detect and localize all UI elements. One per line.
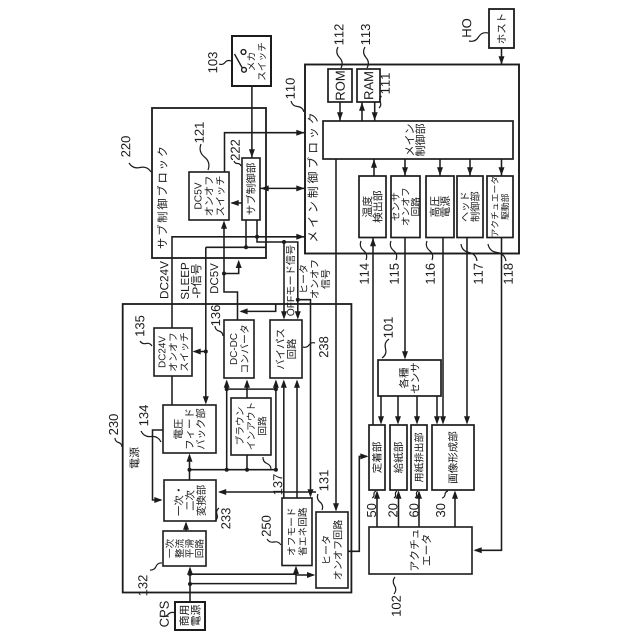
wire: temp detect up into control (373, 159, 375, 176)
label 238 (319, 337, 328, 357)
wire: tap from power boundary into DC5V line (241, 304, 276, 311)
box: DC24V on/off switch 135 (154, 328, 192, 376)
text: power supply title (129, 447, 139, 468)
box: sensor on/off circuit 115 (391, 176, 420, 238)
text: sensor on/off circuit (392, 189, 420, 226)
text: host (497, 14, 506, 43)
text: sub control unit (246, 163, 256, 214)
wire: AC branch to heater circuit (190, 568, 296, 584)
text: head control (461, 192, 480, 222)
wire: actuator drive to actuator (475, 238, 502, 551)
label 60 (409, 504, 418, 517)
block: power supply 230 (123, 304, 352, 593)
text: paper eject (414, 433, 423, 482)
wire: fuser to temp detector (372, 238, 374, 426)
text: image forming (448, 432, 458, 483)
wire: AC input (189, 569, 191, 603)
wire: feedback loop to converter (153, 430, 164, 500)
label 112 (334, 24, 343, 44)
label 117 (474, 264, 483, 284)
box: temperature detector 114 (359, 176, 386, 238)
label 102 (392, 596, 401, 616)
wire: AC branch to energy save (190, 573, 296, 575)
label 114 (360, 263, 369, 283)
symbol: switch contacts (241, 50, 246, 55)
text: HV power supply (430, 196, 450, 217)
box: actuator drive 118 (487, 176, 513, 238)
wire: sub control to main block (bidirectional) (260, 187, 305, 189)
text: fuser (372, 442, 382, 473)
label 233 (221, 508, 230, 528)
wire: ROM to main control unit (339, 102, 341, 121)
wire: SLEEP-P signal (245, 220, 247, 247)
leader squiggles (219, 61, 231, 65)
label 113 (361, 24, 370, 44)
label 30 (436, 504, 445, 517)
wire: DC5V branch to sub block (224, 262, 239, 274)
wire: off-mode branch to bypass (283, 242, 285, 318)
wire: DC5V switch output to main block (225, 133, 306, 172)
label 137 (273, 474, 282, 494)
label HO (462, 19, 471, 37)
wire: mech switch to sub control (251, 86, 253, 158)
label 250 (262, 516, 271, 537)
text: heater on/off circuit (322, 520, 343, 579)
wire: HV supply to image forming (442, 238, 444, 423)
label 132 (138, 575, 147, 595)
text: temperature detector (362, 191, 382, 223)
box: head control 117 (457, 176, 483, 238)
box: DC-DC converter 136 (224, 320, 254, 378)
wire: heater circuit to converter control (220, 491, 317, 493)
box: paper eject unit 60 (411, 425, 427, 490)
wire: heater on/off signal from main control (335, 159, 337, 510)
text: sub control block title (157, 147, 168, 248)
wire: DC-DC to brownout (246, 382, 248, 399)
wires: actuator to units (376, 493, 378, 528)
box: image forming unit 30 (432, 425, 474, 490)
text: actuator (410, 530, 431, 570)
box: mechanical switch 103 (232, 36, 271, 86)
label 135 (135, 316, 144, 336)
text: off-mode energy save (287, 508, 307, 556)
text: commercial power (179, 605, 200, 626)
box: DC5V on/off switch 121 (189, 172, 229, 220)
box: voltage feedback 134 (163, 405, 216, 453)
box: main control unit 111 (323, 121, 513, 159)
signal label SLEEP-P (181, 263, 202, 299)
label 116 (426, 264, 435, 284)
wire: head control to image forming (466, 238, 468, 423)
label 222 (231, 140, 240, 160)
box: heater on/off circuit 131 (316, 512, 348, 588)
wire: secondary bus (190, 469, 276, 471)
label 103 (208, 52, 217, 72)
wire: RAM down line (374, 102, 376, 121)
box: HV power supply 116 (426, 176, 454, 238)
box: RAM 113 (357, 69, 380, 102)
label 121 (195, 122, 204, 142)
block: main control block 110 (305, 65, 519, 254)
text: ROM (336, 71, 345, 99)
text: primary rectifier smoother (165, 539, 204, 558)
wire: off-mode to energy save circuit (298, 300, 311, 496)
wire: heater circuit to fuser (348, 456, 367, 551)
wire: bus riser to DC-DC (226, 382, 228, 470)
text: brown in/out circuit (235, 403, 266, 449)
text: various sensors (399, 363, 420, 393)
label 230 (109, 414, 118, 435)
wire: cross bus (227, 388, 276, 390)
text: paper feed (393, 442, 403, 473)
text: primary-secondary converter (174, 485, 206, 515)
label 136 (211, 305, 220, 325)
text: voltage feedback (174, 409, 206, 450)
box: off-mode energy save circuit 250 (282, 498, 312, 566)
text: actuator drive (491, 177, 509, 236)
label 220 (121, 136, 130, 157)
label CPS (160, 601, 169, 626)
label 115 (390, 264, 399, 284)
signal label OFF mode (286, 245, 295, 315)
text: DC24V on/off switch (158, 333, 188, 371)
wire: sub control to DC5V switch control (232, 202, 243, 204)
box: various sensors 101 (378, 360, 441, 396)
label 118 (504, 264, 513, 284)
box: paper feed unit 20 (390, 425, 407, 490)
text: DC-DC converter (230, 326, 249, 373)
text: main control unit (405, 124, 425, 156)
wire: bus riser to bypass (275, 382, 277, 470)
label 101 (384, 317, 393, 337)
wires: sensors to units (380, 396, 382, 423)
text: mech switch (247, 43, 266, 80)
box: ROM 112 (328, 69, 352, 102)
wire: DC5V from converter to DC5V switch (224, 223, 238, 321)
box: primary rectifier smoother 132 (163, 531, 206, 566)
wire: sensor circuit to sensors (404, 238, 406, 358)
box: fuser unit 50 (369, 425, 385, 490)
text: RAM (364, 72, 373, 99)
wire: RAM up line (361, 102, 363, 121)
label 20 (388, 504, 397, 517)
box: commercial power CPS (175, 602, 205, 630)
block: sub control block 220 (152, 108, 266, 258)
wire: rectifier to converter (185, 524, 187, 532)
wires: energy save to bypass (283, 382, 285, 499)
label 50 (367, 504, 376, 517)
box: host computer (489, 9, 514, 48)
text: main control block title (307, 114, 318, 241)
label 131 (319, 470, 328, 490)
wires: control unit to lower boxes (404, 159, 406, 176)
signal label DC5V (210, 263, 218, 293)
signal label DC24V (160, 261, 168, 298)
label 134 (139, 405, 148, 425)
wire: brownout to bus (246, 455, 248, 470)
wire: sub control bottom to off-mode signal (257, 220, 298, 318)
wire: host to main block (501, 48, 503, 65)
box: actuator 102 (369, 527, 472, 574)
box: brown in/out circuit 137 (231, 398, 271, 455)
label 110 (286, 78, 295, 98)
text: bypass circuit (276, 329, 297, 369)
label 111 (381, 73, 390, 93)
signal label heater on/off (299, 260, 330, 298)
box: bypass circuit 238 (270, 320, 302, 378)
box: primary-secondary converter 233 (164, 480, 216, 521)
wire: DC24V switch to voltage feedback (171, 376, 173, 405)
box: sub control unit 222 (242, 158, 260, 220)
text: DC5V on/off switch (194, 176, 224, 215)
wire: converter to feedback (189, 456, 191, 482)
wire: DC24V rail to main block (172, 237, 305, 328)
